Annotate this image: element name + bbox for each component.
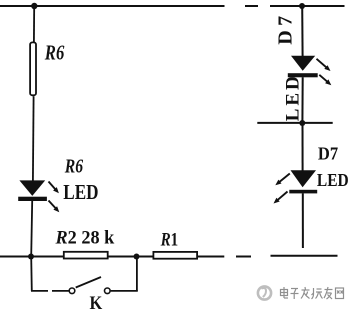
resistor R2 (64, 252, 108, 259)
wire switch lead left b (52, 290, 69, 292)
LED D7 (bottom) cathode bar (289, 190, 317, 194)
LED D7 (top) triangle (291, 56, 315, 71)
wire left branch middle (32, 96, 35, 181)
wire switch lead left a (31, 290, 48, 292)
char 发 (301, 287, 310, 299)
switch K contact circle left (69, 288, 75, 294)
bottom rail right segment (271, 255, 338, 257)
char 网 (336, 288, 344, 299)
top rail right segment (270, 5, 345, 7)
LED D (left) emission arrow 1 (49, 182, 59, 194)
crossbar line right column (257, 122, 332, 124)
svg-text:R2 28 k: R2 28 k (55, 228, 115, 249)
switch K contact circle right (105, 288, 111, 294)
wire switch drop left (30, 257, 33, 292)
wire switch riser right (136, 257, 138, 291)
LED D7 (bottom) emission arrow 2 (274, 192, 288, 204)
top rail left segment (0, 5, 225, 7)
svg-text:D7: D7 (318, 143, 338, 163)
node A junction dot top-left (31, 3, 37, 9)
svg-text:LED: LED (317, 170, 349, 190)
wire right column mid1 (301, 77, 303, 123)
svg-text:LED: LED (63, 180, 98, 204)
svg-text:R6: R6 (64, 156, 83, 178)
node E junction dot bottom-left (28, 254, 34, 260)
svg-text:R6: R6 (44, 40, 65, 64)
LED D7 (bottom) triangle (291, 170, 317, 187)
node C junction dot top-right (299, 3, 305, 9)
wire left branch lower (31, 201, 32, 257)
LED D7 (bottom) emission arrow 1 (275, 174, 290, 186)
char 电 (281, 287, 289, 298)
node B junction dot (R2/R1) (134, 254, 140, 260)
LED D (left) triangle (19, 180, 45, 196)
wire right column bottom (302, 193, 304, 248)
wire right column mid2 (302, 123, 304, 171)
LED D (left) emission arrow 2 (49, 201, 60, 213)
char 烧 (312, 288, 323, 299)
wire switch lead right (111, 290, 138, 292)
watermark logo icon (258, 286, 271, 299)
char 友 (324, 287, 333, 299)
switch K arm (76, 277, 101, 288)
wire right column top (301, 6, 303, 57)
svg-text:LED: LED (283, 73, 304, 121)
wire left branch upper (33, 6, 35, 43)
bottom rail dash (236, 256, 251, 258)
svg-text:D7: D7 (275, 11, 297, 44)
LED D7 (top) emission arrow 2 (319, 75, 331, 85)
svg-text:R1: R1 (160, 229, 178, 250)
bottom rail left segment (0, 256, 224, 258)
node F junction dot (299, 120, 305, 126)
resistor R6 (30, 42, 36, 95)
LED D7 (top) emission arrow 1 (317, 59, 331, 71)
top rail dash (245, 5, 258, 7)
watermark text 电子发烧友网 (281, 287, 344, 299)
svg-text:K: K (90, 293, 103, 312)
LED D (left) cathode bar (18, 197, 47, 201)
char 子 (291, 289, 299, 300)
LED D7 (top) cathode bar (288, 73, 318, 77)
resistor R1 (153, 252, 197, 259)
